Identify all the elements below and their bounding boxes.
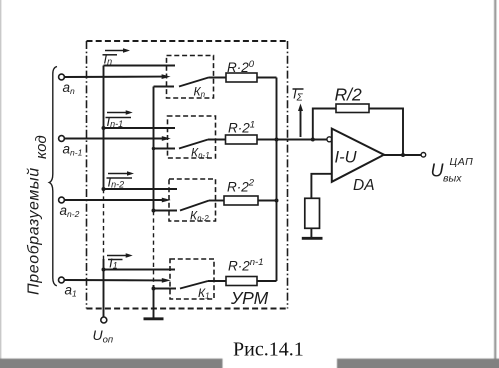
right page edge grey line xyxy=(494,0,496,360)
wire resistor R*2^0 to collector xyxy=(257,77,277,79)
resistor R*2^1 body xyxy=(226,135,258,144)
svg-text:код: код xyxy=(33,135,50,159)
ground dump bus (solid lower part) xyxy=(153,285,155,318)
feedback right leg wire xyxy=(369,109,403,156)
svg-text:вых: вых xyxy=(443,173,462,185)
DAC block dash-dot boundary (left edge) xyxy=(86,41,88,309)
input terminal a_n-2 xyxy=(59,197,65,203)
summing line to op-amp xyxy=(277,139,328,141)
wire switch Kn-1 to resistor xyxy=(208,139,226,141)
node: bus/row4 feed junction xyxy=(102,268,106,272)
wire: row2 feed from bus to switch Kn-1 xyxy=(104,127,176,129)
current direction arrows xyxy=(103,48,304,259)
wire switch K1 to resistor xyxy=(208,280,226,282)
arrowhead a_n xyxy=(162,74,171,79)
arrowhead a_n-2 xyxy=(162,198,171,203)
switch Kn-1 arm xyxy=(179,140,208,149)
resistor R*2^n-1 body xyxy=(226,277,257,286)
node: bus/row2 feed junction xyxy=(102,126,106,130)
resistor R3 body (grounding resistor) xyxy=(305,198,320,228)
Uop terminal circle xyxy=(101,317,107,323)
svg-text:УРМ: УРМ xyxy=(230,288,269,308)
wire: row3 dump stub to switch Kn-2 xyxy=(154,210,178,212)
wire resistor R*2^n-1 to collector xyxy=(257,280,277,282)
wire: row1 dump stub to switch Kn xyxy=(154,86,175,88)
wire a_1 control line xyxy=(64,279,163,281)
DAC block dashed boundary (top edge) xyxy=(87,40,289,42)
wire resistor R*2^2 to collector xyxy=(258,200,277,202)
output terminal circle xyxy=(421,153,426,158)
I_sigma arrow xyxy=(300,108,302,137)
wire: row4 feed from bus to switch K1 xyxy=(104,269,176,271)
overline of I_n label xyxy=(103,54,118,56)
svg-text:Рис.14.1: Рис.14.1 xyxy=(233,339,304,361)
Uop reference bus (solid upper part) xyxy=(103,66,105,190)
switch box Kn xyxy=(167,56,214,99)
bottom grey bar left segment xyxy=(0,359,223,368)
overline of I_1 label xyxy=(108,259,123,261)
node: dump bus/row4 junction xyxy=(152,287,156,291)
node: bus/row3 feed junction xyxy=(102,187,106,191)
Uop reference bus (dashed continuation part) xyxy=(103,189,105,259)
wire resistor R3 to ground xyxy=(310,228,312,237)
node: collector/summing junction xyxy=(275,138,279,142)
wire a_n control line xyxy=(64,76,163,78)
feedback left leg wire xyxy=(313,109,336,140)
svg-text:ЦАП: ЦАП xyxy=(450,156,474,168)
wire a_n-1 control line xyxy=(64,138,163,140)
resistor R*2^2 body xyxy=(224,196,258,205)
switch K1 arm xyxy=(180,281,208,289)
node: feedback/output junction xyxy=(401,153,405,157)
op-amp output wire xyxy=(384,154,421,156)
switch Kn-2 arm xyxy=(180,201,209,211)
switch Kn arm xyxy=(179,78,209,87)
wire: row2 dump stub to switch Kn-1 xyxy=(154,148,176,150)
DAC block dashed boundary (bottom edge) xyxy=(87,308,289,310)
wire resistor R*2^1 to collector xyxy=(257,139,277,141)
arrowhead a_n-1 xyxy=(162,136,171,141)
resistor R*2^0 body xyxy=(226,73,257,82)
ground dump bus (dashed continuation part) xyxy=(153,211,155,285)
node: dump bus/row2 junction xyxy=(152,147,156,151)
resistor R/2 body xyxy=(336,104,369,113)
wire: row4 dump stub to switch K1 xyxy=(154,288,177,290)
node: feedback/summing junction xyxy=(311,138,315,142)
wire switch Kn to resistor xyxy=(209,77,227,79)
ground symbol at op-amp input xyxy=(302,237,323,240)
arrow I_1 xyxy=(107,255,127,257)
overline of I_n-1 label xyxy=(106,117,132,119)
input terminal a_n xyxy=(59,74,65,80)
overline of I_sigma label xyxy=(293,88,304,90)
op-amp U1 triangle xyxy=(332,129,384,182)
bottom grey bar right segment xyxy=(337,359,499,368)
arrowhead a_1 xyxy=(162,278,171,283)
arrow I_n-1 xyxy=(107,112,127,114)
ground symbol of dump bus xyxy=(144,317,164,320)
overline of I_n-2 label xyxy=(107,177,133,179)
svg-text:R/2: R/2 xyxy=(335,85,363,105)
input terminal a_n-1 xyxy=(59,136,65,142)
input group curly brace xyxy=(49,67,57,286)
arrow I_n xyxy=(105,50,125,52)
wire switch Kn-2 to resistor xyxy=(209,200,224,202)
svg-text:I-U: I-U xyxy=(335,149,357,167)
node: collector/row3 junction xyxy=(275,199,279,203)
ground dump bus (solid upper part) xyxy=(153,87,155,212)
op-amp U1 inverting input bubble xyxy=(327,137,332,142)
input terminal a_1 xyxy=(59,277,65,283)
wire a_n-2 control line xyxy=(64,199,163,201)
arrow I_n-2 xyxy=(108,173,128,175)
svg-text:DA: DA xyxy=(353,177,375,194)
left page edge line xyxy=(0,0,1,368)
switch box K1 xyxy=(170,259,214,299)
wire: row1 feed from bus to switch Kn xyxy=(104,65,176,67)
switch box Kn-2 xyxy=(169,179,216,221)
non-inverting input wire xyxy=(311,174,331,199)
node: dump bus/row3 junction xyxy=(152,209,156,213)
switch box Kn-1 xyxy=(168,116,216,158)
DAC block dash-dot boundary (right edge) xyxy=(287,41,289,309)
svg-text:Преобразуемый: Преобразуемый xyxy=(26,167,43,295)
arrowhead I_sigma xyxy=(298,104,303,112)
wire: row3 feed from bus to switch Kn-2 xyxy=(104,188,178,190)
collector vertical wire xyxy=(276,78,278,282)
Uop reference bus (solid lower part) xyxy=(103,259,105,317)
